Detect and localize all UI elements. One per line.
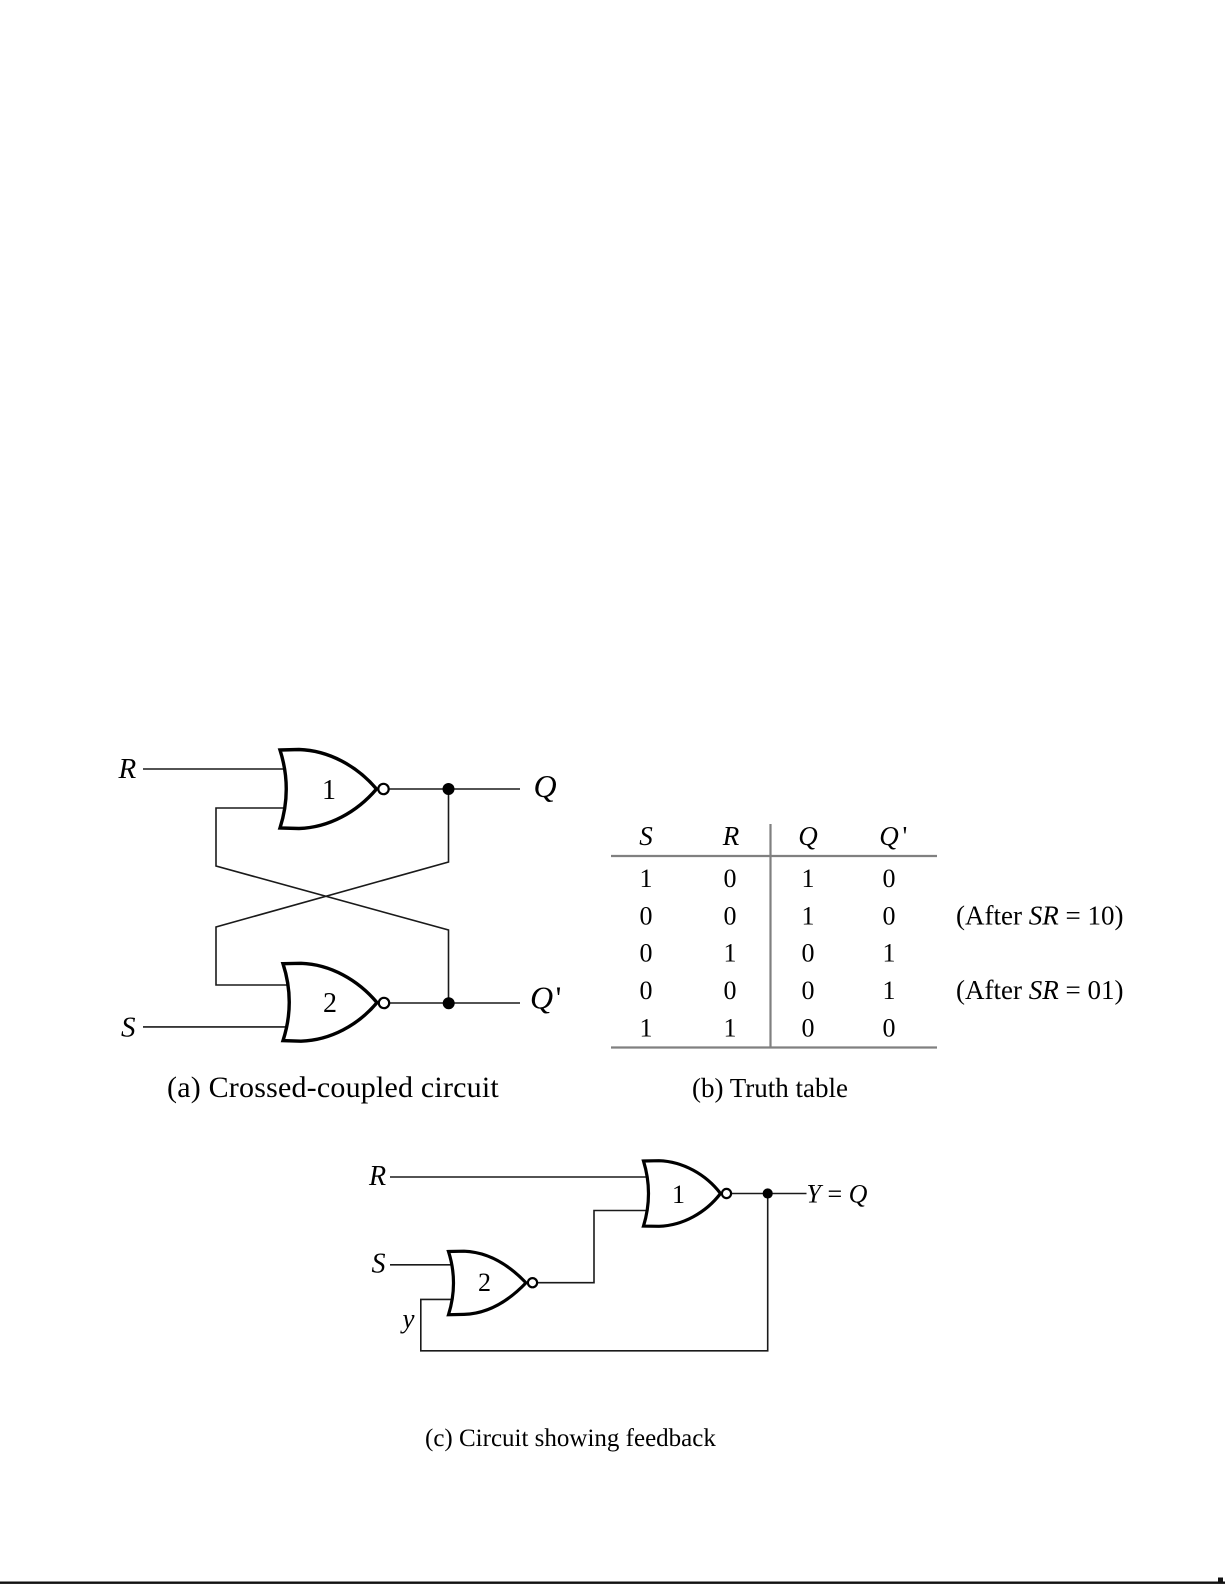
svg-text:Q: Q [879, 821, 899, 851]
svg-text:(After SR = 01): (After SR = 01) [956, 975, 1123, 1005]
svg-text:1: 1 [640, 1013, 653, 1042]
svg-text:0: 0 [883, 864, 896, 893]
svg-text:1: 1 [802, 901, 815, 930]
svg-text:0: 0 [724, 901, 737, 930]
svg-text:1: 1 [802, 864, 815, 893]
svg-text:R: R [368, 1161, 386, 1192]
svg-text:S: S [639, 821, 653, 851]
svg-text:(After SR = 10): (After SR = 10) [956, 900, 1123, 930]
svg-text:Y = Q: Y = Q [807, 1180, 868, 1209]
svg-text:1: 1 [640, 864, 653, 893]
svg-text:0: 0 [724, 864, 737, 893]
svg-text:0: 0 [640, 939, 653, 968]
svg-text:S: S [372, 1249, 386, 1280]
svg-text:1: 1 [883, 976, 896, 1005]
svg-text:Q: Q [798, 821, 818, 851]
svg-text:y: y [400, 1304, 415, 1334]
svg-text:(b) Truth table: (b) Truth table [692, 1073, 848, 1103]
svg-text:(c) Circuit showing feedback: (c) Circuit showing feedback [425, 1425, 716, 1452]
svg-text:0: 0 [802, 976, 815, 1005]
svg-text:1: 1 [322, 775, 336, 806]
svg-text:0: 0 [802, 1013, 815, 1042]
svg-text:1: 1 [724, 939, 737, 968]
svg-text:0: 0 [724, 976, 737, 1005]
svg-text:0: 0 [640, 976, 653, 1005]
svg-text:1: 1 [883, 939, 896, 968]
svg-text:R: R [722, 821, 740, 851]
svg-text:Q': Q' [530, 980, 561, 1016]
svg-text:S: S [121, 1012, 136, 1044]
svg-text:2: 2 [478, 1268, 491, 1297]
svg-text:0: 0 [883, 901, 896, 930]
svg-text:0: 0 [883, 1013, 896, 1042]
svg-text:(a) Crossed-coupled circuit: (a) Crossed-coupled circuit [167, 1071, 499, 1104]
svg-text:0: 0 [640, 901, 653, 930]
svg-text:Q: Q [534, 768, 557, 804]
svg-text:2: 2 [323, 988, 337, 1019]
svg-text:1: 1 [724, 1013, 737, 1042]
svg-text:0: 0 [802, 939, 815, 968]
svg-text:R: R [118, 753, 137, 785]
svg-text:': ' [903, 821, 908, 851]
svg-text:1: 1 [672, 1180, 685, 1209]
